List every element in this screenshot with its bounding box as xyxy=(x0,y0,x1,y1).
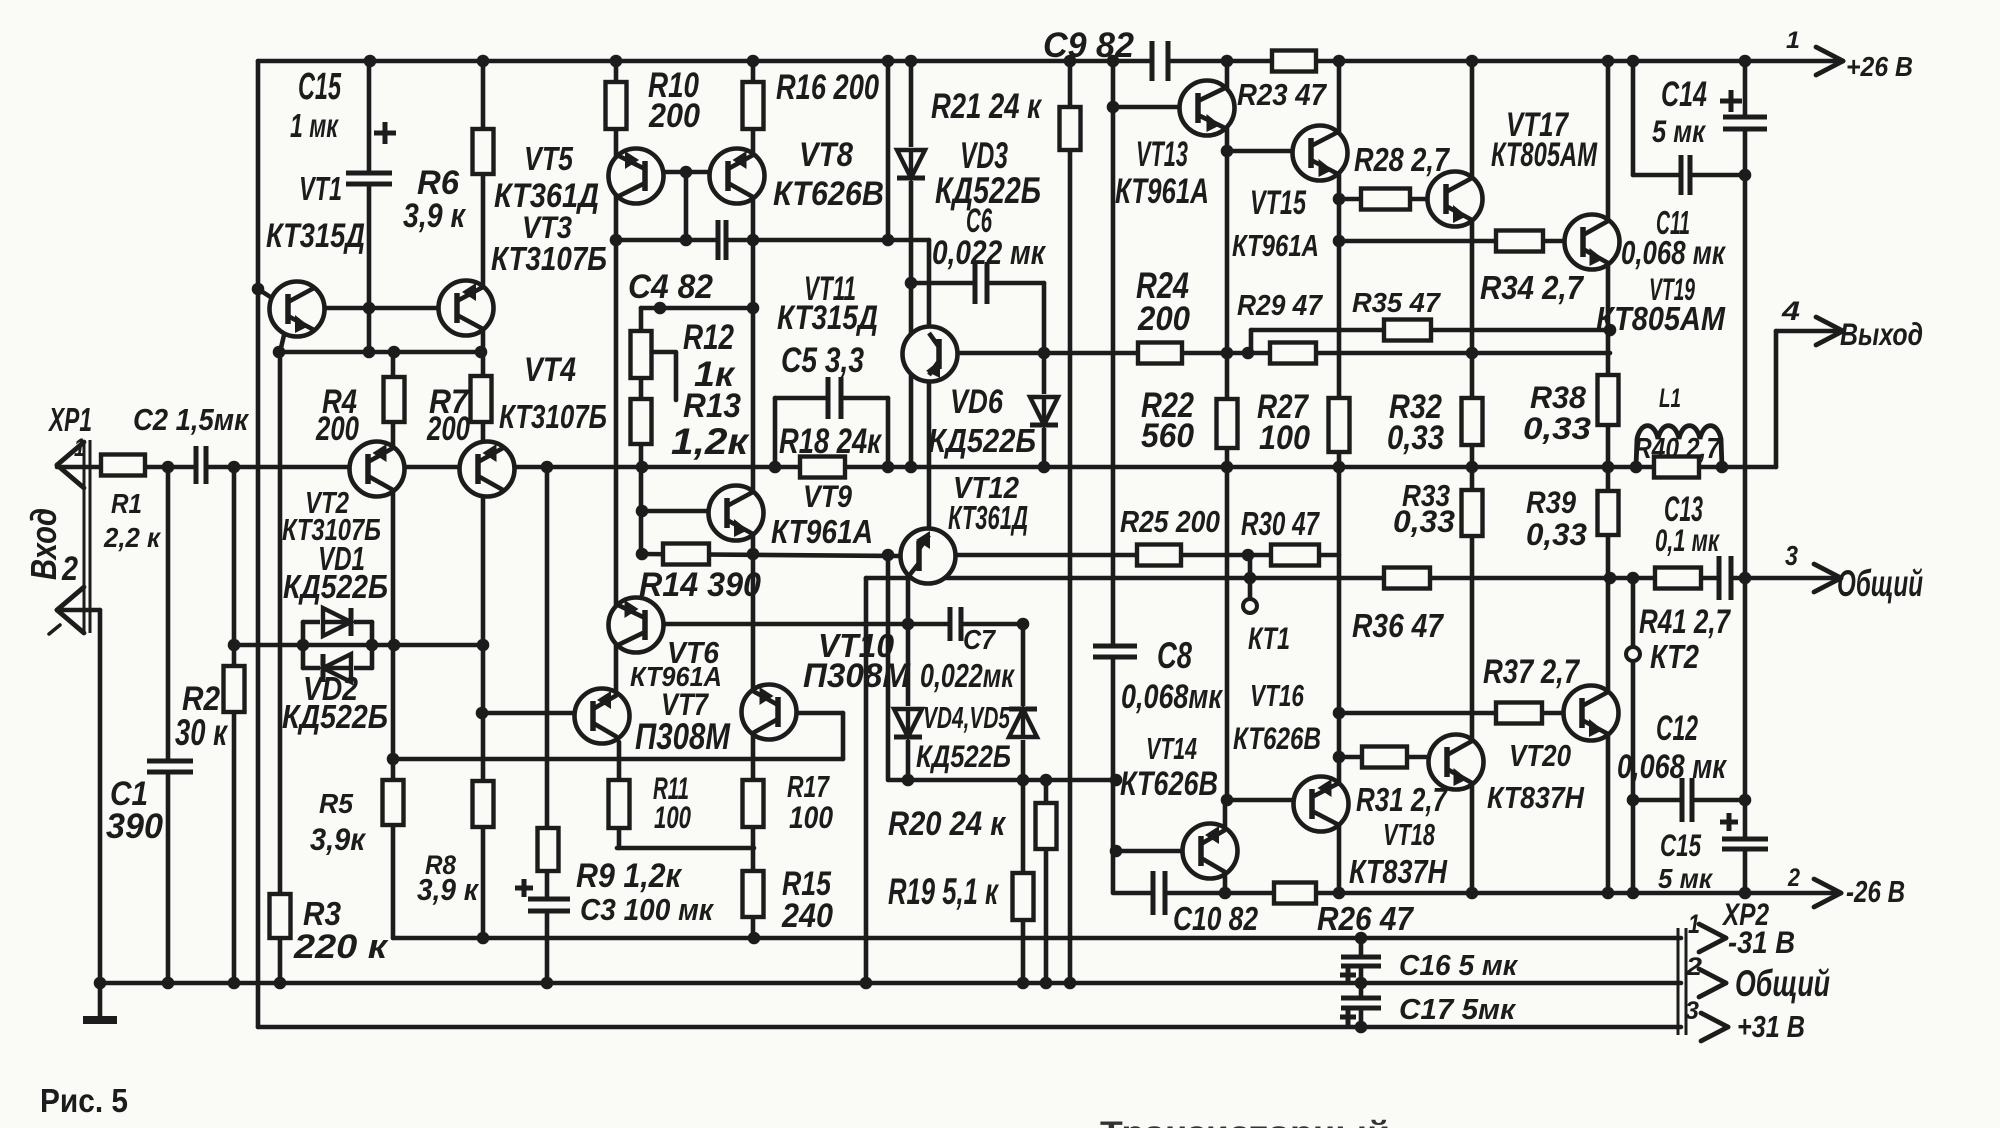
wire C4 line xyxy=(616,238,929,243)
resistor R2 xyxy=(224,666,245,712)
capacitor C6 xyxy=(973,258,989,308)
resistor R19 xyxy=(1013,873,1034,920)
svg-text:R41 2,7: R41 2,7 xyxy=(1639,603,1731,641)
resistor R17 xyxy=(743,780,764,827)
capacitor C15 output xyxy=(1718,837,1772,851)
node on VD4 line xyxy=(1017,774,1030,787)
node C12 xyxy=(1739,794,1752,807)
svg-text:VT18: VT18 xyxy=(1383,818,1435,852)
wire R12/R13 column xyxy=(639,308,644,554)
resistor R18 xyxy=(800,457,845,478)
svg-text:200: 200 xyxy=(315,410,359,448)
node on mid rail xyxy=(162,461,175,474)
wire VD2 branch xyxy=(303,666,372,671)
wire KT2 stub xyxy=(1631,578,1636,646)
node VT7 base xyxy=(476,707,489,720)
svg-text:1 мк: 1 мк xyxy=(290,107,340,144)
svg-text:КД522Б: КД522Б xyxy=(283,568,388,605)
transistor VT4 xyxy=(460,442,515,497)
node on -31V rail xyxy=(1355,932,1368,945)
node R12 top xyxy=(654,302,667,315)
svg-text:КД522Б: КД522Б xyxy=(916,738,1011,774)
arrow +26V xyxy=(1816,47,1843,75)
node on VD1/VD2 line xyxy=(477,639,490,652)
wire -26V rail xyxy=(1113,891,1841,896)
svg-text:R23 47: R23 47 xyxy=(1237,78,1328,112)
resistor R36 xyxy=(1384,568,1430,589)
svg-text:VT20: VT20 xyxy=(1509,739,1571,773)
svg-text:3: 3 xyxy=(1685,997,1699,1025)
svg-text:R5: R5 xyxy=(319,788,354,819)
wire R35 line xyxy=(1251,328,1610,333)
svg-text:R30 47: R30 47 xyxy=(1241,505,1320,542)
arrow common mid xyxy=(1814,564,1841,592)
ground symbol xyxy=(83,983,117,1020)
wire R21 column xyxy=(1068,61,1073,983)
node on +26V rail xyxy=(1739,55,1752,68)
node R14 left xyxy=(636,548,649,561)
node on mid rail xyxy=(882,461,895,474)
node on mid rail xyxy=(1221,461,1234,474)
resistor R27 xyxy=(1329,398,1350,452)
svg-text:1,2к: 1,2к xyxy=(671,421,750,462)
node on VD1/VD2 line xyxy=(388,639,401,652)
wire input stray mark xyxy=(49,625,60,634)
svg-text:VD6: VD6 xyxy=(950,383,1004,421)
resistor R32 xyxy=(1462,398,1483,445)
test point KT1 terminal xyxy=(1243,599,1257,613)
node on ground rail xyxy=(1017,977,1030,990)
svg-text:200: 200 xyxy=(648,97,700,135)
svg-text:КТ2: КТ2 xyxy=(1650,638,1700,675)
node VT1 emitter xyxy=(273,346,286,359)
svg-text:R31 2,7: R31 2,7 xyxy=(1356,781,1448,818)
svg-text:С3 100 мк: С3 100 мк xyxy=(580,893,714,927)
svg-text:П308М: П308М xyxy=(635,716,731,757)
node on -31V rail xyxy=(477,932,490,945)
wire VT14 collector lead xyxy=(1223,800,1228,826)
resistor R13 xyxy=(631,399,652,444)
wire VT1 emitter lead xyxy=(280,331,285,352)
wire R6/R7/R8 column xyxy=(481,61,486,938)
svg-text:R16 200: R16 200 xyxy=(776,67,879,107)
svg-text:КД522Б: КД522Б xyxy=(282,698,388,735)
node on +26V rail xyxy=(1064,55,1077,68)
node on ground rail xyxy=(1040,977,1053,990)
node xyxy=(363,346,376,359)
plus of C17 xyxy=(1340,1009,1356,1025)
node on +26V rail xyxy=(1602,55,1615,68)
node on mid rail xyxy=(1466,461,1479,474)
svg-text:VT9: VT9 xyxy=(803,478,852,514)
resistor R38 xyxy=(1598,375,1619,425)
connector XP1 pin 2 arrow xyxy=(57,587,84,633)
node VT5-VT8 base xyxy=(680,166,693,179)
node on ground rail xyxy=(228,977,241,990)
wire R20 column xyxy=(1044,780,1049,983)
node on mid rail xyxy=(905,461,918,474)
wire C1 column xyxy=(166,467,171,983)
arrow output xyxy=(1816,317,1843,345)
svg-text:0,068 мк: 0,068 мк xyxy=(1617,748,1727,786)
capacitor C5 xyxy=(826,373,843,423)
wire mid signal rail xyxy=(57,465,1776,470)
svg-text:VT8: VT8 xyxy=(799,136,854,174)
capacitor C9 xyxy=(1150,37,1170,85)
node R4 xyxy=(388,346,401,359)
wire R25/R30 line xyxy=(928,553,1339,558)
svg-text:С16 5 мк: С16 5 мк xyxy=(1399,950,1518,982)
node on C4 line xyxy=(747,234,760,247)
node on ground rail xyxy=(94,977,107,990)
node on +26V rail xyxy=(882,55,895,68)
connector XP2 body xyxy=(1678,928,1686,1035)
wire KT1 stub xyxy=(1248,555,1253,599)
node on mid rail xyxy=(1602,461,1615,474)
node on VD1/VD2 line xyxy=(297,639,310,652)
node on VD4 line xyxy=(1040,774,1053,787)
diode VD2 xyxy=(320,651,354,685)
svg-text:ХР1: ХР1 xyxy=(48,401,92,438)
svg-text:КТ1: КТ1 xyxy=(1248,620,1290,656)
diode VD3 xyxy=(894,147,928,181)
node on +26V rail xyxy=(1221,55,1234,68)
wire R32/R33/VT18 column xyxy=(1470,61,1475,892)
wire C8 column xyxy=(1111,61,1116,892)
wire R12 top link xyxy=(641,306,753,311)
svg-text:0,33: 0,33 xyxy=(1387,419,1444,457)
transistor VT16 xyxy=(1294,777,1349,832)
node on C4 line xyxy=(610,234,623,247)
svg-text:3,9 к: 3,9 к xyxy=(403,197,466,235)
node VT14 base xyxy=(1110,845,1123,858)
arrow common pin2 xyxy=(1699,969,1726,997)
svg-text:С14: С14 xyxy=(1661,74,1707,114)
wire -31V rail xyxy=(393,936,1681,941)
node on VD1/VD2 line xyxy=(366,639,379,652)
resistor R24 xyxy=(1138,343,1182,364)
wire output lead xyxy=(1776,329,1843,334)
transistor VT3 xyxy=(439,281,494,336)
svg-text:0,022 мк: 0,022 мк xyxy=(932,234,1046,272)
wire VD6 column xyxy=(1042,283,1047,467)
transistor VT8 xyxy=(710,149,765,204)
wire right main column xyxy=(1743,61,1748,893)
svg-text:С8: С8 xyxy=(1157,635,1192,676)
wire R12 tap xyxy=(652,352,676,400)
transistor VT5 xyxy=(609,149,664,204)
node VT15 base xyxy=(1221,145,1234,158)
resistor R11 xyxy=(609,780,630,828)
svg-text:R37 2,7: R37 2,7 xyxy=(1483,653,1581,691)
wire C12 left column xyxy=(1631,662,1636,893)
wire input ground column xyxy=(98,610,103,983)
svg-text:П308М: П308М xyxy=(803,657,911,695)
node on +26V rail xyxy=(747,55,760,68)
capacitor C13 xyxy=(1717,552,1733,604)
svg-text:КТ961А: КТ961А xyxy=(771,513,873,550)
svg-text:0,1 мк: 0,1 мк xyxy=(1655,522,1720,558)
svg-text:390: 390 xyxy=(106,806,163,846)
svg-text:0,33: 0,33 xyxy=(1526,516,1587,552)
resistor R40 xyxy=(1654,457,1699,478)
node on common line xyxy=(1604,572,1617,585)
svg-text:Общий: Общий xyxy=(1837,563,1923,604)
wire common ground rail xyxy=(100,981,1681,986)
wire C6 branch xyxy=(911,281,1044,286)
wire VT11/VT12 column xyxy=(927,240,932,560)
svg-text:С15: С15 xyxy=(1660,827,1701,863)
transistor VT14 xyxy=(1183,824,1238,879)
node on +26V rail xyxy=(1107,55,1120,68)
svg-text:R12: R12 xyxy=(683,317,734,357)
wire VD1 branch xyxy=(303,620,372,625)
transistor VT17 xyxy=(1428,172,1483,227)
svg-text:С2 1,5мк: С2 1,5мк xyxy=(133,403,249,437)
node on VD4 line xyxy=(902,774,915,787)
plus of C14 xyxy=(1720,90,1742,112)
resistor R28 xyxy=(1361,189,1410,210)
wire R34 line xyxy=(1339,239,1564,244)
wire R2 column xyxy=(232,467,237,983)
svg-text:L1: L1 xyxy=(1659,383,1681,413)
svg-text:С4 82: С4 82 xyxy=(628,268,713,306)
node on mid rail xyxy=(1630,461,1643,474)
node on R35 line xyxy=(1604,324,1617,337)
svg-text:1: 1 xyxy=(1688,909,1700,939)
svg-text:Вход: Вход xyxy=(23,508,64,580)
svg-text:-26 В: -26 В xyxy=(1846,875,1905,909)
node on common line xyxy=(1739,572,1752,585)
capacitor C2 xyxy=(194,442,208,488)
svg-text:R28 2,7: R28 2,7 xyxy=(1354,141,1450,178)
wire R10/VT6 column xyxy=(614,61,619,694)
node VT13 base xyxy=(1107,101,1120,114)
wire VT15 base xyxy=(1227,149,1294,154)
svg-text:КТ315Д: КТ315Д xyxy=(777,299,878,337)
transistor VT1 xyxy=(270,282,325,337)
node on R24 line xyxy=(1242,347,1255,360)
node on R24 line xyxy=(1038,347,1051,360)
node on common line xyxy=(1244,572,1257,585)
wire left border xyxy=(256,61,261,1027)
wire VT14 base xyxy=(1116,849,1182,854)
svg-text:С15: С15 xyxy=(298,65,341,108)
svg-text:КТ315Д: КТ315Д xyxy=(266,217,365,255)
wire VT7 emitter lead xyxy=(617,742,622,781)
wire C11 drop xyxy=(1631,61,1636,175)
node C7 right xyxy=(1017,618,1030,631)
node on ground rail xyxy=(541,977,554,990)
node R31 xyxy=(1333,751,1346,764)
wire R24/R29 line xyxy=(930,351,1610,356)
capacitor C10 xyxy=(1151,867,1167,919)
svg-text:R21 24 к: R21 24 к xyxy=(931,86,1043,126)
svg-text:5 мк: 5 мк xyxy=(1658,863,1714,894)
wire R38/R39 column xyxy=(1606,61,1611,892)
svg-text:R19 5,1 к: R19 5,1 к xyxy=(888,871,1000,912)
svg-text:+26 В: +26 В xyxy=(1846,51,1913,82)
resistor R5 xyxy=(383,780,404,825)
resistor R3 xyxy=(270,894,291,938)
svg-text:R40 2,7: R40 2,7 xyxy=(1634,433,1722,465)
wire VT1-VT3 link xyxy=(324,306,440,311)
resistor R33 xyxy=(1462,490,1483,536)
wire C11 line xyxy=(1633,173,1745,178)
svg-text:R39: R39 xyxy=(1526,484,1576,520)
wire VD4 column xyxy=(906,576,911,780)
svg-text:VT5: VT5 xyxy=(524,140,574,177)
transistor VT6 xyxy=(609,598,664,653)
plus of C16 xyxy=(1340,967,1356,983)
svg-text:КТ626В: КТ626В xyxy=(1120,765,1218,803)
capacitor C3 xyxy=(524,897,574,913)
node on R24 line xyxy=(1221,347,1234,360)
wire P308M base bus xyxy=(393,757,843,762)
svg-text:R34 2,7: R34 2,7 xyxy=(1480,269,1584,306)
wire R35-R29 jog xyxy=(1249,330,1254,353)
node on +26V rail xyxy=(905,55,918,68)
resistor R7 xyxy=(471,376,492,422)
resistor R20 xyxy=(1036,803,1057,849)
diode VD5 xyxy=(1006,706,1040,740)
node on +26V rail xyxy=(477,55,490,68)
svg-text:1: 1 xyxy=(1786,27,1800,54)
svg-text:R3: R3 xyxy=(303,895,341,932)
resistor R23 xyxy=(1272,51,1316,72)
node on VD4 line xyxy=(1110,774,1123,787)
node on mid rail xyxy=(1716,461,1729,474)
node VT9 collector xyxy=(747,302,760,315)
node on -31V rail xyxy=(748,932,761,945)
node on C4 line xyxy=(882,234,895,247)
svg-text:С5 3,3: С5 3,3 xyxy=(781,340,864,380)
wire emitter link VT1 xyxy=(279,350,481,355)
arrow -31V pin1 xyxy=(1699,924,1726,952)
svg-text:200: 200 xyxy=(426,410,470,448)
arrow +31V pin3 xyxy=(1701,1013,1728,1041)
svg-text:-31 В: -31 В xyxy=(1728,924,1795,960)
wire +31V rail xyxy=(258,1025,1681,1030)
node C12 left xyxy=(1627,794,1640,807)
node P308M bus left xyxy=(387,753,400,766)
node R7 xyxy=(475,346,488,359)
resistor R14 xyxy=(663,544,709,565)
svg-text:КТ837Н: КТ837Н xyxy=(1487,781,1585,815)
node KT1 xyxy=(1242,549,1255,562)
wire top drop to C4 line xyxy=(886,61,891,240)
svg-text:30 к: 30 к xyxy=(175,712,229,753)
wire C16/C17 column xyxy=(1359,938,1364,1027)
svg-text:560: 560 xyxy=(1141,417,1194,455)
node R37 xyxy=(1333,707,1346,720)
resistor R26 xyxy=(1274,883,1316,904)
wire R28 line xyxy=(1339,197,1428,202)
svg-text:R14 390: R14 390 xyxy=(639,566,761,604)
wire +26V top rail xyxy=(258,59,1843,64)
node R34 xyxy=(1333,235,1346,248)
node on -26V rail xyxy=(1219,887,1232,900)
node on mid rail xyxy=(769,461,782,474)
node C15 bottom xyxy=(363,302,376,315)
node VT16 base xyxy=(1221,794,1234,807)
capacitor C17 xyxy=(1337,996,1385,1010)
svg-text:R35 47: R35 47 xyxy=(1352,287,1442,318)
wire VT1 emitter column xyxy=(278,352,283,983)
svg-text:R36 47: R36 47 xyxy=(1352,607,1444,644)
node on +31V rail xyxy=(1355,1021,1368,1034)
wire VT16 base xyxy=(1227,798,1295,803)
svg-text:КТ361Д: КТ361Д xyxy=(948,499,1028,536)
capacitor C15 input xyxy=(342,171,396,186)
wire R16/R17/R15 column xyxy=(751,61,756,938)
svg-text:VT16: VT16 xyxy=(1250,679,1305,713)
plus of C15 output xyxy=(1720,813,1738,831)
plus of C15 input xyxy=(374,122,396,144)
resistor R4 xyxy=(384,377,405,422)
svg-text:КТ961А: КТ961А xyxy=(1115,171,1209,211)
svg-text:240: 240 xyxy=(781,897,833,935)
wire VT13 base xyxy=(1113,105,1181,110)
svg-text:5 мк: 5 мк xyxy=(1652,113,1707,149)
transistor VT15 xyxy=(1293,126,1348,181)
svg-text:100: 100 xyxy=(789,799,833,835)
wire C5 loop right xyxy=(886,398,891,467)
wire common output line xyxy=(866,576,1841,581)
wire R11 bottom lead xyxy=(617,828,622,848)
node on VD1/VD2 line xyxy=(228,639,241,652)
inductor L1 xyxy=(1636,426,1722,467)
svg-text:200: 200 xyxy=(1137,300,1190,338)
svg-text:VT13: VT13 xyxy=(1136,134,1188,174)
svg-text:КТ805АМ: КТ805АМ xyxy=(1596,300,1726,337)
transistor VT12 xyxy=(901,529,956,584)
node on ground rail xyxy=(860,977,873,990)
node on -26V rail xyxy=(1333,887,1346,900)
svg-text:КТ3107Б: КТ3107Б xyxy=(499,398,607,435)
wire VT1 base lead xyxy=(258,289,272,298)
svg-text:VT14: VT14 xyxy=(1146,732,1197,766)
node on mid rail xyxy=(541,461,554,474)
svg-text:3: 3 xyxy=(1785,540,1799,571)
node on mid rail xyxy=(1333,461,1346,474)
diode VD1 xyxy=(320,605,354,639)
resistor R1 xyxy=(101,455,145,476)
plus of C3 xyxy=(515,879,533,897)
node R28 xyxy=(1333,193,1346,206)
svg-text:КД522Б: КД522Б xyxy=(928,422,1036,459)
svg-text:100: 100 xyxy=(1259,419,1310,457)
node on +26V rail xyxy=(1627,55,1640,68)
node on R24 line xyxy=(1466,347,1479,360)
svg-text:КТ626В: КТ626В xyxy=(773,175,884,213)
wire VT6 base / C7 branch xyxy=(664,622,1023,627)
node on -26V rail xyxy=(1627,887,1640,900)
svg-text:VT1: VT1 xyxy=(299,170,342,207)
resistor R9 xyxy=(538,828,559,871)
resistor R22 xyxy=(1217,399,1238,448)
wire common-to-ground column xyxy=(864,578,869,983)
wire R14 line xyxy=(642,554,900,556)
svg-text:0,33: 0,33 xyxy=(1523,410,1591,446)
svg-text:R25 200: R25 200 xyxy=(1120,505,1220,539)
svg-text:С9 82: С9 82 xyxy=(1043,25,1134,65)
capacitor C16 xyxy=(1337,955,1385,968)
wire R22/VT16 column xyxy=(1225,61,1230,800)
svg-text:R29 47: R29 47 xyxy=(1237,290,1324,322)
svg-text:0,022мк: 0,022мк xyxy=(920,657,1016,694)
transistor VT10 xyxy=(742,685,797,740)
